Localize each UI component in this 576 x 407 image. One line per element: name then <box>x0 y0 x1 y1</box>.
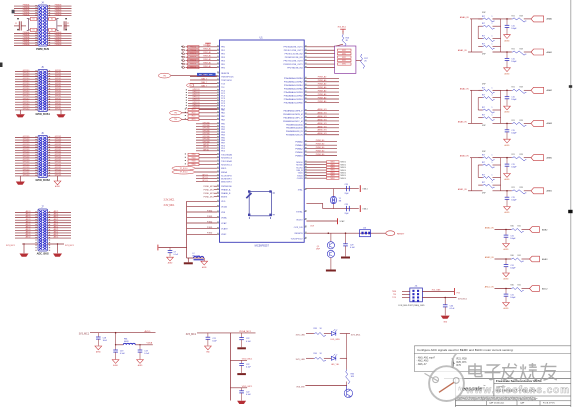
svg-text:AGND: AGND <box>505 111 511 114</box>
svg-text:GPIOD: GPIOD <box>203 149 210 151</box>
svg-text:GPIOB0: GPIOB0 <box>202 130 209 132</box>
svg-text:J11: J11 <box>415 286 418 288</box>
svg-text:VSSA: VSSA <box>221 216 227 219</box>
svg-text:ANC0: ANC0 <box>26 220 31 223</box>
svg-text:3V3_MC1: 3V3_MC1 <box>6 245 16 247</box>
svg-text:3V3_LED: 3V3_LED <box>296 334 306 336</box>
svg-text:100pF: 100pF <box>511 167 517 169</box>
svg-text:K1: K1 <box>33 30 35 32</box>
svg-text:0.1uF: 0.1uF <box>120 353 126 355</box>
svg-text:PGND_MC1: PGND_MC1 <box>203 196 214 198</box>
svg-text:GPIOB0: GPIOB0 <box>202 133 209 135</box>
svg-text:XTAL1: XTAL1 <box>362 188 367 191</box>
svg-text:1: 1 <box>492 16 493 18</box>
svg-text:R17: R17 <box>482 174 485 176</box>
svg-text:100pF: 100pF <box>511 200 517 202</box>
svg-text:VDDIO: VDDIO <box>296 219 303 221</box>
svg-text:OCR: OCR <box>310 225 315 227</box>
svg-text:JTAG_T: JTAG_T <box>201 74 208 77</box>
svg-text:AGND: AGND <box>505 39 511 42</box>
svg-text:PWM_A0: PWM_A0 <box>318 93 327 96</box>
svg-text:100pF: 100pF <box>511 28 517 30</box>
svg-text:TP0: TP0 <box>189 85 192 87</box>
svg-text:PF1/SCL1/XB_OUT7: PF1/SCL1/XB_OUT7 <box>284 50 304 52</box>
svg-text:PTA0/ANA0&CMPA3: PTA0/ANA0&CMPA3 <box>284 77 304 80</box>
svg-text:100pF: 100pF <box>511 99 517 101</box>
svg-text:R28: R28 <box>520 154 523 156</box>
svg-text:PWM_A0: PWM_A0 <box>318 86 327 89</box>
svg-text:K2: K2 <box>51 19 53 21</box>
svg-text:VCAP2: VCAP2 <box>221 227 228 230</box>
svg-text:AGND: AGND <box>504 307 510 310</box>
svg-text:ANC2: ANC2 <box>542 287 548 290</box>
svg-text:ANC1: ANC1 <box>54 215 59 218</box>
svg-text:MISO0: MISO0 <box>341 167 346 169</box>
svg-text:PWM_B0: PWM_B0 <box>316 154 325 156</box>
svg-text:GPIOB0: GPIOB0 <box>202 128 209 130</box>
svg-text:R28: R28 <box>520 87 523 89</box>
svg-text:- AN6, A7: - AN6, A7 <box>417 363 428 366</box>
svg-text:FLT0: FLT0 <box>192 112 196 114</box>
svg-text:R17: R17 <box>482 115 485 117</box>
svg-text:1: 1 <box>492 182 493 184</box>
svg-text:0.1uF: 0.1uF <box>246 394 252 396</box>
svg-text:PTA4/ANA4&CMPB3: PTA4/ANA4&CMPB3 <box>284 91 304 94</box>
svg-text:ANC1: ANC1 <box>54 236 59 239</box>
svg-text:CAP Distribution: CAP Distribution <box>489 401 505 404</box>
svg-text:R41: R41 <box>518 255 521 257</box>
svg-text:CLKIN: CLKIN <box>297 178 303 180</box>
svg-text:1: 1 <box>492 95 493 97</box>
svg-text:PB4/ANB4&DACA: PB4/ANB4&DACA <box>286 123 303 126</box>
svg-text:PTA3/ANA3&CMPA0: PTA3/ANA3&CMPA0 <box>284 88 304 91</box>
svg-text:MOSI/GPIO: MOSI/GPIO <box>221 178 232 180</box>
svg-text:PTA5/ANA5&CMPB2: PTA5/ANA5&CMPB2 <box>284 94 304 97</box>
svg-text:R28: R28 <box>520 187 523 189</box>
svg-text:R40: R40 <box>511 285 514 287</box>
svg-text:R17: R17 <box>482 36 485 38</box>
svg-text:ANB0_M1: ANB0_M1 <box>317 111 327 114</box>
svg-text:GPIO21: GPIO21 <box>55 175 62 177</box>
svg-text:AGND: AGND <box>505 178 511 181</box>
svg-text:RESET: RESET <box>397 233 405 235</box>
svg-text:PWMB1: PWMB1 <box>295 155 303 157</box>
svg-text:R41: R41 <box>518 285 521 287</box>
svg-text:R21: R21 <box>512 87 515 89</box>
svg-text:100pF: 100pF <box>511 132 517 134</box>
svg-text:PWMA1: PWMA1 <box>295 144 303 147</box>
svg-text:ANC0: ANC0 <box>26 213 31 216</box>
svg-text:TXD0: TXD0 <box>297 173 303 175</box>
svg-text:ANA0_IN: ANA0_IN <box>460 16 469 19</box>
svg-text:VDD_MC1: VDD_MC1 <box>242 386 253 388</box>
svg-text:VDDA: VDDA <box>147 342 153 345</box>
svg-text:R28: R28 <box>520 120 523 122</box>
svg-text:ANB1_IN: ANB1_IN <box>458 188 467 191</box>
svg-text:PWM_B0: PWM_B0 <box>316 140 325 142</box>
svg-text:3V3_MC1: 3V3_MC1 <box>338 27 346 29</box>
svg-text:PB3/ANB3&CMPC_M: PB3/ANB3&CMPC_M <box>283 120 303 123</box>
svg-text:PWMB0: PWMB0 <box>295 152 303 154</box>
svg-text:F.O.B 4 F2%: F.O.B 4 F2% <box>543 402 555 404</box>
svg-text:PWM0B: PWM0B <box>55 44 62 46</box>
svg-text:TP0: TP0 <box>174 119 177 121</box>
svg-text:PF5/RXD1/XB_OUT9: PF5/RXD1/XB_OUT9 <box>283 64 303 66</box>
svg-text:LED_GRN: LED_GRN <box>331 339 341 341</box>
svg-text:3.3V_MC1: 3.3V_MC1 <box>164 200 176 202</box>
svg-text:1: 1 <box>492 87 493 89</box>
svg-text:0.1uF: 0.1uF <box>246 341 252 343</box>
svg-text:PGND_MC1: PGND_MC1 <box>203 186 214 188</box>
svg-text:TP0: TP0 <box>163 75 166 77</box>
svg-text:1: 1 <box>492 43 493 45</box>
svg-text:MISO0: MISO0 <box>341 170 346 172</box>
svg-text:R28: R28 <box>520 48 523 50</box>
svg-text:SCLK/GPIO: SCLK/GPIO <box>221 176 232 178</box>
svg-text:R21: R21 <box>512 48 515 50</box>
svg-text:TDI: TDI <box>221 87 225 89</box>
svg-text:ANC1: ANC1 <box>54 233 59 236</box>
svg-text:MISO0: MISO0 <box>296 162 303 164</box>
svg-text:MISO/GPIO: MISO/GPIO <box>221 181 232 183</box>
svg-text:PB0/ANB0&CMPB_P: PB0/ANB0&CMPB_P <box>283 109 303 112</box>
svg-text:TP_SCL0: TP_SCL0 <box>180 172 188 174</box>
svg-text:AGND: AGND <box>504 248 510 251</box>
svg-text:1: 1 <box>492 107 493 109</box>
svg-text:Configure ADC signals used for: Configure ADC signals used for BEMF and … <box>417 348 514 352</box>
svg-text:PWM_A0: PWM_A0 <box>203 58 211 61</box>
svg-text:R17: R17 <box>482 107 485 109</box>
svg-text:ANC0: ANC0 <box>26 225 31 228</box>
svg-text:PWRMODE: PWRMODE <box>221 186 232 188</box>
svg-text:RXD1/SCL1: RXD1/SCL1 <box>221 164 233 166</box>
svg-text:R21: R21 <box>512 120 515 122</box>
svg-text:ANB0_M1: ANB0_M1 <box>317 122 327 125</box>
svg-text:ANC2_IN: ANC2_IN <box>485 286 494 289</box>
svg-text:3V3_LED: 3V3_LED <box>296 359 306 361</box>
svg-text:100pF: 100pF <box>511 61 517 63</box>
svg-text:PWM_B0: PWM_B0 <box>316 147 325 149</box>
svg-text:PF3/MOSI1/XB_IN3: PF3/MOSI1/XB_IN3 <box>285 57 304 59</box>
svg-text:ANC1: ANC1 <box>54 213 59 216</box>
svg-text:AGND: AGND <box>55 185 61 188</box>
svg-text:PWM_A0: PWM_A0 <box>203 55 211 58</box>
svg-text:ANC0: ANC0 <box>26 228 31 231</box>
svg-text:1: 1 <box>492 162 493 164</box>
svg-text:SCLK0: SCLK0 <box>296 167 303 169</box>
svg-text:R17: R17 <box>482 95 485 97</box>
svg-text:PTA7/ANA7&CMPB0: PTA7/ANA7&CMPB0 <box>284 101 304 104</box>
svg-text:3V3_MC1: 3V3_MC1 <box>79 334 90 336</box>
svg-text:MISO0: MISO0 <box>341 173 346 175</box>
svg-text:100pF: 100pF <box>510 297 516 299</box>
svg-text:PF6/TB2/XB_IN4: PF6/TB2/XB_IN4 <box>287 67 303 69</box>
svg-text:R17: R17 <box>482 87 485 89</box>
svg-text:GPIOD: GPIOD <box>203 147 210 149</box>
svg-text:PB1/ANB1&CMPB_M: PB1/ANB1&CMPB_M <box>283 113 303 116</box>
svg-text:JTAG_T: JTAG_T <box>201 81 208 84</box>
svg-text:VSS: VSS <box>221 212 226 214</box>
svg-text:GPIO10: GPIO10 <box>23 109 30 111</box>
svg-text:MC56F8257: MC56F8257 <box>255 244 270 248</box>
svg-text:PWM_A0: PWM_A0 <box>318 83 327 86</box>
svg-text:R21: R21 <box>512 15 515 17</box>
svg-text:GPIOB0: GPIOB0 <box>202 122 209 124</box>
svg-text:RESETB: RESETB <box>295 233 304 235</box>
svg-text:1: 1 <box>492 174 493 176</box>
svg-text:ANB0_M1: ANB0_M1 <box>317 129 327 132</box>
svg-text:GPIOB0: GPIOB0 <box>202 139 209 141</box>
svg-text:R28: R28 <box>520 15 523 17</box>
svg-text:PGND: PGND <box>207 233 213 235</box>
svg-text:GPIO_BUS1: GPIO_BUS1 <box>36 113 51 116</box>
svg-text:ANC0: ANC0 <box>26 218 31 221</box>
svg-text:RXD0: RXD0 <box>297 175 303 177</box>
svg-text:K1: K1 <box>33 19 35 21</box>
svg-text:ANC1: ANC1 <box>54 210 59 213</box>
svg-text:100pF: 100pF <box>510 238 516 240</box>
svg-text:GPIOC0: GPIOC0 <box>192 107 199 109</box>
svg-text:ANC0: ANC0 <box>26 236 31 239</box>
svg-text:ANB0_IN: ANB0_IN <box>460 155 469 158</box>
svg-text:0.1uF: 0.1uF <box>144 353 150 355</box>
svg-text:PWM0A: PWM0A <box>23 13 30 16</box>
svg-text:www.elecfans.com: www.elecfans.com <box>465 385 569 396</box>
svg-text:PF0/SDA1/XB_OUT6: PF0/SDA1/XB_OUT6 <box>283 46 303 49</box>
svg-text:CON_DBG PORT(JTAG)_SWD: CON_DBG PORT(JTAG)_SWD <box>398 304 425 307</box>
svg-text:FLT0: FLT0 <box>192 116 196 118</box>
svg-text:TXD0/SDA0: TXD0/SDA0 <box>221 153 233 156</box>
svg-text:TMS/GPIOD5: TMS/GPIOD5 <box>221 76 234 78</box>
svg-text:ANB2: ANB2 <box>542 228 548 231</box>
svg-text:K2: K2 <box>51 30 53 32</box>
svg-text:J10: J10 <box>363 228 366 230</box>
svg-text:R21: R21 <box>512 154 515 156</box>
svg-text:AVDD: AVDD <box>144 330 150 333</box>
svg-text:3V3_MC1: 3V3_MC1 <box>186 334 197 336</box>
svg-text:C2: C2 <box>67 23 69 25</box>
svg-text:1: 1 <box>492 115 493 117</box>
svg-text:PGND: PGND <box>207 210 213 212</box>
svg-text:EXTAL: EXTAL <box>296 210 303 213</box>
svg-text:TDI: TDI <box>393 294 397 296</box>
svg-text:3V3_MC1: 3V3_MC1 <box>65 245 75 247</box>
svg-text:TCK: TCK <box>221 83 226 85</box>
svg-text:ANC1: ANC1 <box>54 223 59 226</box>
svg-text:PGND: PGND <box>207 221 213 223</box>
svg-text:VCAP: VCAP <box>221 222 227 225</box>
svg-text:AGND: AGND <box>505 72 511 75</box>
svg-text:AGND: AGND <box>505 211 511 214</box>
svg-text:ANB0_M1: ANB0_M1 <box>317 115 327 118</box>
svg-text:TXD0: TXD0 <box>191 154 195 156</box>
svg-text:ANA1: ANA1 <box>547 51 553 54</box>
svg-text:PHASE_A: PHASE_A <box>221 189 231 192</box>
svg-text:C28: C28 <box>345 184 348 186</box>
svg-text:3V3_MC1: 3V3_MC1 <box>458 298 468 300</box>
svg-text:R40: R40 <box>511 226 514 228</box>
svg-text:ANA1_IN: ANA1_IN <box>458 49 467 52</box>
svg-text:ANB1: ANB1 <box>547 190 553 193</box>
svg-text:C28: C28 <box>345 204 348 206</box>
svg-text:PWM_A0: PWM_A0 <box>203 61 211 64</box>
svg-text:FLT0: FLT0 <box>192 119 196 121</box>
svg-text:PGND_MC1: PGND_MC1 <box>203 189 214 191</box>
svg-text:3V3_MC1: 3V3_MC1 <box>351 335 362 337</box>
svg-text:PWM_A0: PWM_A0 <box>318 76 327 79</box>
svg-text:GPIO20: GPIO20 <box>23 175 30 177</box>
svg-text:PWM_A0: PWM_A0 <box>318 79 327 82</box>
svg-text:PGND_MC1: PGND_MC1 <box>203 193 214 195</box>
svg-text:VCAP: VCAP <box>340 220 346 223</box>
svg-text:PWM_A0: PWM_A0 <box>203 48 211 51</box>
svg-text:VSS2: VSS2 <box>221 234 227 236</box>
svg-text:ANC1: ANC1 <box>54 220 59 223</box>
svg-text:ANC1: ANC1 <box>54 225 59 228</box>
svg-text:ANC0: ANC0 <box>26 223 31 226</box>
svg-text:GPIO_BUS2: GPIO_BUS2 <box>36 179 51 182</box>
svg-text:ANC0: ANC0 <box>26 210 31 213</box>
svg-text:ANA2: ANA2 <box>547 89 553 92</box>
svg-text:PWM_BUS: PWM_BUS <box>36 48 49 51</box>
svg-text:VDD_MC1: VDD_MC1 <box>242 359 253 361</box>
svg-text:R17: R17 <box>482 23 485 25</box>
svg-text:TXD0: TXD0 <box>191 161 195 163</box>
svg-text:R17: R17 <box>482 155 485 157</box>
svg-text:100pF: 100pF <box>510 268 516 270</box>
svg-text:TP0: TP0 <box>174 113 177 115</box>
svg-text:PTA2/ANA2&CMPA1: PTA2/ANA2&CMPA1 <box>284 84 304 87</box>
svg-text:FLT0: FLT0 <box>192 109 196 111</box>
svg-text:PB7/ANB7&XB_IN: PB7/ANB7&XB_IN <box>286 134 303 137</box>
svg-text:PWMA0: PWMA0 <box>295 141 303 144</box>
svg-text:ANC1: ANC1 <box>54 231 59 234</box>
svg-text:PWM0B: PWM0B <box>55 14 62 16</box>
svg-text:PB5/ANB5&DACB: PB5/ANB5&DACB <box>286 127 303 130</box>
svg-text:MISO0: MISO0 <box>341 162 346 164</box>
svg-text:1: 1 <box>492 23 493 25</box>
svg-text:ANC1: ANC1 <box>54 218 59 221</box>
svg-text:TCK/GPIOD2: TCK/GPIOD2 <box>290 238 303 240</box>
svg-text:3.3V_MC1: 3.3V_MC1 <box>164 205 176 207</box>
svg-text:VDDA_MC1: VDDA_MC1 <box>239 330 252 333</box>
svg-text:VDDA: VDDA <box>221 205 227 208</box>
svg-text:PWM_B0: PWM_B0 <box>316 150 325 152</box>
svg-text:INDEX: INDEX <box>221 197 228 199</box>
svg-text:PWM_A0: PWM_A0 <box>203 65 211 68</box>
svg-text:SPI_S: SPI_S <box>202 177 208 179</box>
svg-text:GPIOB0: GPIOB0 <box>202 125 209 127</box>
svg-text:PF4/TXD1/XB_OUT8: PF4/TXD1/XB_OUT8 <box>284 60 304 62</box>
svg-text:TXD1/SDA1: TXD1/SDA1 <box>221 160 233 163</box>
svg-text:PF2/SCLK1/XB_IN2: PF2/SCLK1/XB_IN2 <box>285 54 304 56</box>
svg-text:MOSI0: MOSI0 <box>296 165 303 167</box>
svg-text:LED_YEL: LED_YEL <box>331 364 339 366</box>
svg-text:XTAL1: XTAL1 <box>362 208 367 211</box>
svg-text:0.1uF: 0.1uF <box>246 367 252 369</box>
svg-text:ANA0: ANA0 <box>547 18 553 21</box>
svg-text:ANB3_IN: ANB3_IN <box>485 256 494 259</box>
svg-text:AGND: AGND <box>504 278 510 281</box>
svg-text:CAP: CAP <box>520 401 525 404</box>
svg-text:MISO0: MISO0 <box>341 175 346 177</box>
svg-text:PWM_A0: PWM_A0 <box>318 100 327 103</box>
svg-text:ANB2_IN: ANB2_IN <box>485 227 494 230</box>
svg-text:R34: R34 <box>314 353 317 355</box>
svg-text:C1: C1 <box>15 23 17 25</box>
svg-text:R17: R17 <box>482 43 485 45</box>
svg-text:3V3_EN: 3V3_EN <box>296 386 305 388</box>
svg-text:GPIO11: GPIO11 <box>55 109 61 111</box>
svg-text:ANB0_M1: ANB0_M1 <box>317 108 327 111</box>
svg-text:ANC1: ANC1 <box>54 228 59 231</box>
svg-text:600R: 600R <box>124 341 129 343</box>
svg-text:ANB0_M1: ANB0_M1 <box>317 125 327 128</box>
svg-text:0.1uF: 0.1uF <box>350 247 356 249</box>
svg-text:ANB3: ANB3 <box>542 258 548 261</box>
svg-text:PTA6/ANA6&CMPB1: PTA6/ANA6&CMPB1 <box>284 98 304 101</box>
svg-text:ANB0_M1: ANB0_M1 <box>317 132 327 135</box>
svg-text:ADC_BUS: ADC_BUS <box>37 252 49 255</box>
svg-text:MSDA: MSDA <box>221 171 227 174</box>
svg-text:R41: R41 <box>518 226 521 228</box>
svg-text:MISO0: MISO0 <box>341 164 346 166</box>
svg-text:PTA1/ANA1&CMPA2: PTA1/ANA1&CMPA2 <box>284 81 304 84</box>
svg-text:SS0_B: SS0_B <box>296 170 303 172</box>
svg-text:0.1uF: 0.1uF <box>450 308 456 310</box>
svg-text:MISO0: MISO0 <box>341 178 346 180</box>
svg-text:R76: R76 <box>457 364 462 367</box>
svg-text:ANC0: ANC0 <box>26 233 31 236</box>
svg-text:PWM0A: PWM0A <box>23 43 30 46</box>
svg-text:PB2/ANB2&CMPC_P: PB2/ANB2&CMPC_P <box>283 116 303 119</box>
svg-text:SPI_S: SPI_S <box>202 180 208 182</box>
svg-text:1: 1 <box>492 155 493 157</box>
svg-text:RXD0/SCL0: RXD0/SCL0 <box>221 158 233 160</box>
svg-text:AGND: AGND <box>505 144 511 147</box>
svg-text:JTAG_T: JTAG_T <box>201 85 208 88</box>
svg-text:R33: R33 <box>314 328 317 330</box>
svg-text:R21: R21 <box>512 187 515 189</box>
svg-text:PWMA2: PWMA2 <box>295 147 303 150</box>
svg-text:TP_SCL0: TP_SCL0 <box>180 168 188 170</box>
svg-text:ANB0: ANB0 <box>547 157 553 160</box>
svg-text:PWM_A0: PWM_A0 <box>203 51 211 54</box>
svg-text:TRST/GPIO: TRST/GPIO <box>221 80 232 82</box>
svg-text:ANA3_IN: ANA3_IN <box>458 120 467 123</box>
svg-text:OCR_DIS: OCR_DIS <box>294 227 304 229</box>
svg-text:3V3_JTAG: 3V3_JTAG <box>432 288 441 291</box>
svg-text:VDD: VDD <box>221 201 226 203</box>
svg-text:PHASE_B: PHASE_B <box>221 192 231 195</box>
svg-text:TXD0: TXD0 <box>191 164 195 166</box>
svg-text:PWM_A0: PWM_A0 <box>318 90 327 93</box>
svg-text:MSCL: MSCL <box>221 168 227 170</box>
svg-text:SPI_S: SPI_S <box>202 174 208 176</box>
svg-text:PGND: PGND <box>207 227 213 229</box>
svg-text:RESETB: RESETB <box>221 73 230 75</box>
svg-text:1: 1 <box>492 36 493 38</box>
svg-text:ANC0: ANC0 <box>26 231 31 234</box>
svg-text:PWM_B0: PWM_B0 <box>316 144 325 146</box>
svg-text:GPIOB0: GPIOB0 <box>202 136 209 138</box>
svg-text:ANA2_IN: ANA2_IN <box>460 87 469 90</box>
svg-text:R17: R17 <box>482 162 485 164</box>
svg-text:PWM_A0: PWM_A0 <box>318 96 327 99</box>
svg-text:ANA3: ANA3 <box>547 122 553 125</box>
svg-text:ANC0: ANC0 <box>26 215 31 218</box>
svg-text:GPIOD: GPIOD <box>203 144 210 146</box>
